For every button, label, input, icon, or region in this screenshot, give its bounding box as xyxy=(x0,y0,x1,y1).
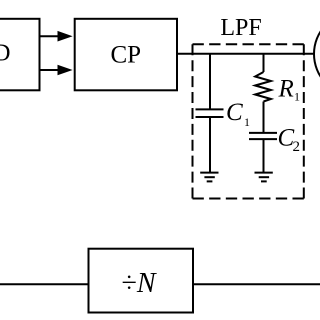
ground (C1) xyxy=(200,173,218,182)
label R1 xyxy=(278,76,301,104)
wire CP output to VCO xyxy=(177,53,315,55)
svg-text:LPF: LPF xyxy=(220,15,261,41)
VCO circle (partial, cut at right edge) xyxy=(314,12,320,96)
block divider N xyxy=(89,249,194,313)
svg-text:1: 1 xyxy=(294,89,300,103)
svg-text:÷N: ÷N xyxy=(122,268,157,299)
block PFD (partial, cut at left edge) xyxy=(0,19,40,91)
resistor R1 xyxy=(255,54,271,133)
LPF dashed box xyxy=(193,44,304,198)
label C2 xyxy=(278,125,301,155)
svg-text:2: 2 xyxy=(293,139,301,155)
label C1 xyxy=(226,99,250,129)
svg-text:1: 1 xyxy=(244,115,250,129)
svg-text:C: C xyxy=(226,99,243,126)
ground (C2) xyxy=(255,173,273,182)
wire arrow DN (PFD to CP) xyxy=(40,65,73,76)
svg-text:CP: CP xyxy=(111,42,142,69)
block CP xyxy=(75,19,177,91)
wire bottom right (feedback) xyxy=(193,283,320,285)
capacitor C2 xyxy=(249,133,277,173)
wire arrow UP (PFD to CP) xyxy=(40,31,73,42)
wire bottom left (feedback) xyxy=(0,283,89,285)
svg-text:D: D xyxy=(0,40,11,66)
capacitor C1 xyxy=(196,54,224,173)
svg-text:R: R xyxy=(278,76,294,103)
